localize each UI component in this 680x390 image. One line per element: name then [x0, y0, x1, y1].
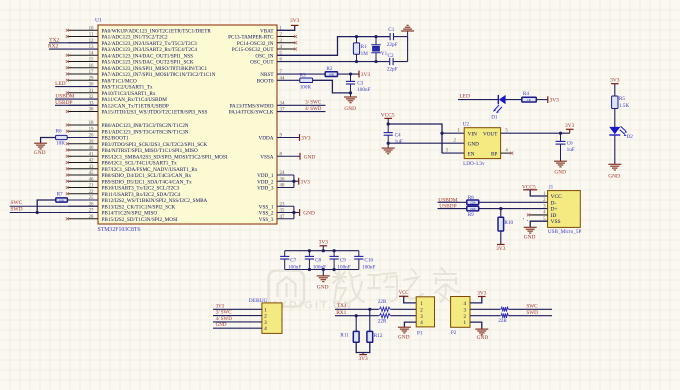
svg-text:PA11/CAN_Rx/T1C4/USBDM: PA11/CAN_Rx/T1C4/USBDM — [102, 97, 168, 103]
pin 17 PA7 stub — [68, 73, 98, 75]
resistor 22R SWC zigzag — [501, 307, 509, 313]
power port 3V3 VDDA — [299, 134, 301, 141]
net TX1 wire — [335, 308, 416, 310]
wire P1 pin4 to ground — [404, 322, 416, 327]
LED D1 — [499, 95, 506, 104]
pin 14 PA4 stub — [68, 54, 98, 56]
power port GND VSSA — [299, 153, 301, 160]
capacitor C8 — [308, 251, 310, 257]
resistor R3 — [300, 78, 313, 83]
svg-text:15: 15 — [89, 58, 94, 63]
junction VOUT/C6 — [559, 132, 562, 135]
svg-text:PB12/I2S2_WS/T1BKIN/SPI2_NSS/I: PB12/I2S2_WS/T1BKIN/SPI2_NSS/I2C2_SMBA — [102, 198, 208, 204]
svg-text:VCC: VCC — [399, 291, 409, 296]
svg-text:TX2: TX2 — [49, 37, 59, 43]
pin 39 PB3 stub — [68, 143, 98, 145]
svg-text:C10: C10 — [364, 257, 373, 263]
svg-text:U2: U2 — [463, 122, 470, 128]
wire R12 vertical — [369, 309, 371, 331]
svg-text:GND: GND — [398, 334, 410, 340]
svg-text:PB8/SDIO_D4/I2C1_SCL/T4C3/CAN_: PB8/SDIO_D4/I2C1_SCL/T4C3/CAN_Rx — [102, 173, 192, 179]
svg-text:SWC: SWC — [11, 200, 23, 206]
svg-text:1K: 1K — [527, 98, 532, 102]
wire OSC_OUT rail — [277, 61, 389, 63]
wire P2 pin4 to 3V3 — [470, 297, 482, 303]
svg-text:GND: GND — [216, 323, 227, 328]
svg-text:PC15-OSC32_OUT: PC15-OSC32_OUT — [232, 47, 275, 53]
svg-text:PA15/JTDI/I2S3_WS/JTDO/T2C1ETR: PA15/JTDI/I2S3_WS/JTDO/T2C1ETR/SPI3_NSS — [102, 110, 208, 116]
resistor R4 — [522, 97, 537, 102]
pin 10 PA0 stub — [68, 29, 98, 31]
junction VDD — [292, 180, 295, 183]
svg-text:PB10/USART3_Tx/I2C2_SCL/T2C3: PB10/USART3_Tx/I2C2_SCL/T2C3 — [102, 186, 180, 192]
IC U1 body — [98, 25, 277, 224]
power port VCC5 U2 — [384, 117, 392, 119]
svg-text:1uF: 1uF — [395, 139, 403, 145]
svg-text:1uF: 1uF — [567, 147, 575, 153]
svg-text:D-: D- — [551, 200, 557, 206]
svg-text:3V3: 3V3 — [496, 246, 506, 252]
svg-text:LED: LED — [55, 81, 66, 87]
wire J1 VSS to ground — [530, 221, 547, 227]
net USBDM wire — [55, 98, 98, 100]
svg-text:C2: C2 — [388, 53, 394, 59]
wire VCC5 input — [387, 118, 389, 124]
junction RX1/R11 — [355, 314, 358, 317]
svg-text:PA1/ADC123_IN1/T5C2/T2C2: PA1/ADC123_IN1/T5C2/T2C2 — [102, 35, 169, 41]
svg-text:VCC5: VCC5 — [381, 112, 395, 118]
resistor R10 — [498, 217, 504, 231]
net SWC wire left — [10, 205, 98, 207]
wire U2 GND pin — [388, 142, 464, 144]
svg-text:22pF: 22pF — [387, 42, 398, 48]
power port 3V3 NRST — [358, 71, 360, 78]
cap bank bottom rail — [285, 269, 359, 271]
svg-text:PB0/ADC123_IN8/T3C3/T8C2N/T1C2: PB0/ADC123_IN8/T3C3/T8C2N/T1C2N — [102, 123, 189, 129]
svg-text:VOUT: VOUT — [483, 131, 498, 137]
junction R7/SWD — [36, 211, 39, 214]
connector DEBUG body — [262, 303, 282, 334]
svg-text:PA8/T1C1/MCO: PA8/T1C1/MCO — [102, 78, 138, 84]
DEBUG wire 4/ SWD — [213, 321, 262, 323]
wire R5 to D2 — [614, 109, 616, 128]
svg-text:PB5/I2C1_SMBA/I2S3_SD/SPI3_MOS: PB5/I2C1_SMBA/I2S3_SD/SPI3_MOSI/T3C2/SPI… — [102, 154, 228, 160]
J1 ID stub no-connect — [530, 214, 548, 216]
svg-text:D1: D1 — [491, 114, 498, 120]
svg-text:PB9/SDIO_D5/I2C1_SDA/T4C4/CAN_: PB9/SDIO_D5/I2C1_SDA/T4C4/CAN_Tx — [102, 179, 193, 185]
svg-text:18: 18 — [89, 121, 94, 126]
pin 4 stub no-connect — [277, 48, 295, 50]
capacitor C7 — [284, 251, 286, 257]
svg-text:22R: 22R — [378, 319, 387, 325]
svg-text:PA6/ADC123_IN6/SPI1_MISO/T8T1B: PA6/ADC123_IN6/SPI1_MISO/T8T1BKIN/T3C1 — [102, 66, 208, 72]
wire BOOT0 — [277, 79, 300, 81]
resistor R5 — [612, 96, 618, 109]
pin 30 PA9 stub — [68, 86, 98, 88]
svg-text:R12: R12 — [374, 333, 383, 339]
regulator U2 body — [464, 128, 500, 159]
wire EN — [442, 152, 464, 154]
junction VCC5/C4 — [387, 122, 390, 125]
svg-text:3/ SWC: 3/ SWC — [216, 311, 233, 316]
svg-text:100nF: 100nF — [362, 264, 375, 270]
wire R2 to 3V3 — [338, 73, 360, 75]
svg-text:PA12/CAN_Tx/T1ETR/USBDP: PA12/CAN_Tx/T1ETR/USBDP — [102, 103, 169, 109]
wire 3V3 to R5 — [614, 84, 616, 96]
resistor R7 wire right — [67, 199, 98, 201]
svg-text:GND: GND — [304, 154, 316, 160]
svg-text:PA0/WKUP/ADC123_IN0/T2C1ETR/T5: PA0/WKUP/ADC123_IN0/T2C1ETR/T5C1/DIETR — [102, 28, 212, 34]
svg-text:BP: BP — [491, 151, 497, 157]
pin 13 PA3 stub — [68, 48, 98, 50]
capacitor C9 — [333, 251, 335, 257]
svg-text:VSS_3: VSS_3 — [259, 217, 274, 223]
svg-text:Y1: Y1 — [381, 51, 388, 57]
resistor R8 — [467, 200, 479, 205]
svg-text:D+: D+ — [551, 207, 558, 213]
watermark logo — [269, 271, 305, 307]
svg-text:VSS: VSS — [551, 219, 561, 225]
svg-text:PB6/I2C1_SCL/T4C1/USART1_Tx: PB6/I2C1_SCL/T4C1/USART1_Tx — [102, 161, 178, 167]
svg-text:C8: C8 — [315, 257, 321, 263]
wire OSC_IN riser — [277, 37, 390, 56]
resistor R1 — [356, 37, 358, 43]
wire VBAT to 3V3 — [277, 25, 295, 30]
junction TX1/R12 — [368, 308, 371, 311]
svg-text:VBAT: VBAT — [260, 28, 274, 34]
svg-text:45: 45 — [89, 171, 94, 176]
svg-text:PB1/ADC123_IN9/T3C4/T8C3N/T1C3: PB1/ADC123_IN9/T3C4/T8C3N/T1C3N — [102, 129, 189, 135]
svg-text:PA10/T1C3/USART1_Rx: PA10/T1C3/USART1_Rx — [102, 91, 156, 97]
pin 38 PA15 stub — [68, 111, 98, 113]
pin 22 PB11 stub — [68, 193, 98, 195]
junction VIN — [440, 132, 443, 135]
resistor R7 — [56, 198, 68, 202]
wire R10 to 3V3 — [500, 231, 502, 245]
svg-text:22R: 22R — [378, 299, 387, 305]
svg-text:R11: R11 — [340, 333, 349, 339]
svg-text:43: 43 — [89, 165, 94, 170]
svg-text:PB2/BOOT1: PB2/BOOT1 — [102, 136, 130, 142]
svg-text:C4: C4 — [395, 133, 401, 139]
power port 3V3 P2 — [478, 296, 486, 298]
capacitor C1 — [389, 33, 391, 40]
pin 3 stub no-connect — [277, 42, 295, 44]
svg-text:USB_Micro_5P: USB_Micro_5P — [548, 229, 582, 235]
svg-text:PB4/NJTRST/SPI3_MISO/T1C1/SPI1: PB4/NJTRST/SPI3_MISO/T1C1/SPI1_MISO — [102, 148, 199, 154]
pin 32 PA11 stub — [68, 98, 98, 100]
pin 26 PB13 stub — [68, 205, 98, 207]
pin 42 PB6 stub — [68, 162, 98, 164]
svg-text:R5: R5 — [619, 96, 625, 102]
svg-text:3V3: 3V3 — [358, 356, 368, 362]
svg-text:U1: U1 — [95, 18, 102, 24]
svg-text:R7: R7 — [57, 192, 63, 198]
svg-text:19: 19 — [89, 127, 94, 132]
pin 33 PA12 stub — [68, 104, 98, 106]
wire P2 SWC — [470, 308, 552, 310]
svg-text:17: 17 — [89, 70, 94, 75]
wire P2 pin1 to ground — [470, 322, 482, 329]
cap bank top rail — [285, 250, 359, 252]
svg-text:R4: R4 — [523, 91, 529, 97]
pin 20 PB2 stub — [68, 137, 98, 139]
svg-text:4/ SWD: 4/ SWD — [305, 107, 322, 112]
capacitor C10 — [358, 251, 360, 257]
power port 3V3 LED — [547, 96, 549, 103]
svg-text:100nF: 100nF — [288, 264, 301, 270]
net SWD right wire — [277, 111, 326, 113]
svg-text:RX2: RX2 — [48, 44, 58, 50]
svg-text:OSC_OUT: OSC_OUT — [250, 60, 274, 66]
svg-text:D2: D2 — [627, 134, 634, 140]
svg-text:28: 28 — [89, 215, 94, 220]
svg-text:NRST: NRST — [260, 72, 274, 78]
wire C2 to ground node — [393, 61, 407, 63]
cap bank junctions — [308, 249, 311, 252]
svg-text:PB7/I2C1_SDA/FSMC_NADV/USART1_: PB7/I2C1_SDA/FSMC_NADV/USART1_Rx — [102, 167, 198, 173]
pin 45 PB8 stub — [68, 174, 98, 176]
resistor 22R RX1 zigzag — [379, 313, 391, 319]
svg-text:BOOT0: BOOT0 — [257, 78, 274, 84]
svg-text:10K: 10K — [56, 141, 65, 147]
svg-text:1.5K: 1.5K — [619, 103, 629, 109]
svg-text:VIN: VIN — [468, 131, 477, 137]
svg-text:VSSA: VSSA — [260, 154, 274, 160]
svg-text:29: 29 — [89, 76, 94, 81]
junction VSS — [292, 211, 295, 214]
wire R8 to J1 — [479, 201, 548, 203]
svg-text:R1: R1 — [361, 44, 367, 50]
wire VOUT to 3V3 — [501, 132, 570, 134]
svg-text:VDD_1: VDD_1 — [257, 173, 274, 179]
svg-text:PB13/I2S2_CK/T1C1N/SPI2_SCK: PB13/I2S2_CK/T1C1N/SPI2_SCK — [102, 204, 176, 210]
power port GND VSS — [299, 209, 301, 216]
wire VSS group — [277, 205, 294, 207]
pin 19 PB1 stub — [68, 130, 98, 132]
svg-text:STM32F103C8T6: STM32F103C8T6 — [98, 227, 141, 233]
svg-text:14: 14 — [89, 51, 94, 56]
resistor 22R TX1 zigzag — [379, 307, 391, 313]
svg-text:3V3: 3V3 — [361, 72, 371, 78]
capacitor C4 — [387, 124, 389, 132]
net RX2 wire — [49, 48, 98, 50]
resistor R6 — [56, 135, 68, 139]
svg-text:VSS_2: VSS_2 — [259, 211, 274, 217]
earth ground C4 — [382, 147, 395, 149]
wire D1 to R4 — [506, 99, 522, 101]
capacitor C6 — [560, 133, 562, 141]
svg-text:3V3: 3V3 — [565, 123, 575, 129]
svg-text:C6: C6 — [567, 141, 573, 147]
svg-text:3V3: 3V3 — [610, 78, 620, 84]
svg-text:22pF: 22pF — [387, 67, 398, 73]
pin 28 PB15 stub — [68, 218, 98, 220]
resistor R2 — [325, 72, 337, 77]
wire P2 SWD — [470, 315, 552, 317]
svg-text:C3: C3 — [357, 81, 363, 87]
pin 46 PB9 stub — [68, 180, 98, 182]
svg-text:3V3: 3V3 — [216, 304, 225, 309]
svg-text:TX1: TX1 — [337, 303, 347, 309]
svg-text:C9: C9 — [340, 257, 346, 263]
wire R6 to ground — [41, 138, 56, 144]
svg-text:LDO-3.3v: LDO-3.3v — [463, 161, 485, 167]
svg-text:22R: 22R — [498, 318, 507, 324]
svg-text:R3: R3 — [300, 73, 306, 79]
resistor R11 — [353, 331, 359, 342]
earth ground C6 — [554, 160, 567, 162]
svg-text:21: 21 — [89, 184, 94, 189]
svg-text:GND: GND — [554, 169, 566, 175]
wire VDD to 3V3 — [294, 180, 299, 182]
svg-text:PC13-TAMPER-RTC: PC13-TAMPER-RTC — [228, 35, 274, 41]
svg-text:PB11/USART3_Rx/I2C2_SDA/T2C4: PB11/USART3_Rx/I2C2_SDA/T2C4 — [102, 192, 181, 198]
svg-text:R9: R9 — [468, 212, 474, 218]
pin 12 PA2 stub — [68, 42, 98, 44]
svg-text:GND: GND — [344, 106, 356, 112]
svg-text:C7: C7 — [290, 257, 296, 263]
earth ground cap bank — [317, 275, 330, 277]
svg-text:GND: GND — [608, 173, 620, 179]
power port 3V3 VBAT — [291, 24, 299, 26]
power port 3V3 VDD — [298, 178, 300, 185]
svg-text:22: 22 — [89, 190, 94, 195]
connector P2 body — [451, 297, 470, 328]
svg-text:USBDM: USBDM — [55, 94, 74, 100]
pin 18 PB0 stub — [68, 124, 98, 126]
svg-text:R8: R8 — [468, 195, 474, 201]
resistor 22R SWD zigzag — [501, 313, 509, 319]
wire R11 R12 join — [356, 342, 370, 352]
svg-text:100nF: 100nF — [337, 264, 350, 270]
svg-text:40: 40 — [89, 146, 94, 151]
svg-text:3V3: 3V3 — [290, 18, 300, 24]
pin 40 PB4 stub — [68, 149, 98, 151]
pin 21 PB10 stub — [68, 187, 98, 189]
svg-text:3V3: 3V3 — [550, 98, 560, 104]
wire R9 to J1 — [479, 208, 548, 210]
wire VDDA — [277, 137, 300, 139]
wire 3V3 stem — [322, 246, 324, 251]
ground below R6 — [34, 142, 47, 144]
svg-text:R6: R6 — [56, 129, 62, 135]
svg-text:PA3/ADC123_IN3/USART2_Rx/T5C4/: PA3/ADC123_IN3/USART2_Rx/T5C4/T2C4 — [102, 47, 198, 53]
svg-text:GND: GND — [477, 335, 489, 341]
wire D2 to ground — [614, 135, 616, 165]
svg-text:DEBUG: DEBUG — [249, 298, 268, 304]
net USBDP wire — [438, 208, 467, 210]
svg-text:100K: 100K — [300, 84, 312, 90]
wire VSSA — [277, 155, 300, 157]
wire LED to D1 — [458, 99, 498, 101]
svg-text:10K: 10K — [328, 72, 334, 76]
svg-text:C1: C1 — [388, 27, 394, 33]
wire VCC5 to J1 — [530, 190, 547, 196]
svg-text:31: 31 — [89, 89, 94, 94]
pin 43 PB7 stub — [68, 168, 98, 170]
svg-text:3V3: 3V3 — [301, 136, 311, 142]
pin 29 PA8 stub — [68, 79, 98, 81]
power port 3V3 pullups — [359, 354, 367, 356]
connector P1 body — [416, 297, 434, 327]
earth ground P2 — [475, 328, 488, 330]
wire BOOT0 to ground — [313, 80, 351, 93]
pin 2 stub no-connect — [277, 36, 295, 38]
resistor R9 — [467, 206, 479, 211]
svg-text:SWD: SWD — [526, 310, 538, 316]
connector J1 body — [548, 191, 581, 228]
svg-text:38: 38 — [89, 108, 94, 113]
svg-text:PA4/ADC123_IN4/DAC_OUT1/SPI1_N: PA4/ADC123_IN4/DAC_OUT1/SPI1_NSS — [102, 53, 194, 59]
svg-text:J1: J1 — [549, 184, 554, 190]
U2 BP stub — [501, 152, 511, 154]
svg-text:PA7/ADC123_IN7/SPI1_MOSI/T8C1N: PA7/ADC123_IN7/SPI1_MOSI/T8C1N/T3C2/T1C1… — [102, 72, 216, 78]
capacitor C2 — [389, 58, 391, 65]
capacitor C3 — [350, 74, 352, 81]
svg-text:42: 42 — [89, 159, 94, 164]
pin 16 PA6 stub — [68, 67, 98, 69]
svg-text:RX1: RX1 — [336, 310, 346, 316]
svg-text:VDD_3: VDD_3 — [257, 186, 274, 192]
wire VCC to P1 pin1 — [404, 296, 417, 303]
resistor R12 — [367, 331, 373, 342]
svg-text:PB15/I2S2_SD/T1C3N/SPI2_MOSI: PB15/I2S2_SD/T1C3N/SPI2_MOSI — [102, 217, 178, 223]
svg-text:EN: EN — [468, 151, 475, 157]
wire NRST — [277, 73, 325, 75]
wire VSS to GND — [294, 212, 300, 214]
DEBUG wire 3V3 — [213, 308, 262, 310]
svg-text:R2: R2 — [326, 66, 332, 72]
svg-text:GND: GND — [524, 234, 536, 240]
resistor R6 wire right — [67, 137, 98, 139]
svg-text:GND: GND — [468, 141, 479, 147]
pin 31 PA10 stub — [68, 92, 98, 94]
power port 3V3 R10 — [497, 244, 505, 246]
svg-text:10: 10 — [89, 26, 94, 31]
svg-text:11: 11 — [89, 33, 94, 38]
net LED wire — [55, 86, 98, 88]
svg-text:46: 46 — [89, 177, 94, 182]
net USBDP wire — [55, 104, 98, 106]
svg-text:PA13/JTMS/SWDIO: PA13/JTMS/SWDIO — [230, 103, 274, 109]
svg-text:P2: P2 — [451, 330, 457, 336]
wire ground vertical — [407, 37, 409, 62]
wire C1 to ground node — [394, 36, 408, 38]
earth ground J1 — [524, 226, 537, 228]
svg-text:SWC: SWC — [526, 304, 538, 310]
svg-text:PC14-OSC32_IN: PC14-OSC32_IN — [237, 41, 274, 47]
wire R10 top — [500, 209, 502, 218]
net TX2 wire — [49, 42, 98, 44]
wire R11 vertical — [355, 316, 357, 332]
net RX1 wire — [335, 315, 416, 317]
wire VDD group — [277, 174, 294, 176]
svg-text:10K: 10K — [59, 198, 65, 202]
earth ground D2 — [608, 163, 621, 165]
wire R7 left to SWD net — [37, 200, 56, 213]
net SWD wire left — [10, 212, 98, 214]
svg-text:PA5/ADC123_IN5/DAC_OUT2/SPI1_S: PA5/ADC123_IN5/DAC_OUT2/SPI1_SCK — [102, 60, 194, 66]
svg-text:100nF: 100nF — [357, 87, 370, 93]
power port 3V3 VOUT — [569, 129, 571, 133]
svg-text:USBDP: USBDP — [55, 100, 72, 106]
svg-text:P1: P1 — [417, 331, 423, 337]
svg-text:PA2/ADC123_IN2/USART2_Tx/T5C3/: PA2/ADC123_IN2/USART2_Tx/T5C3/T2C3 — [102, 41, 198, 47]
svg-text:PB14/T1C2N/SPI2_MISO: PB14/T1C2N/SPI2_MISO — [102, 211, 158, 217]
net SWC right wire — [277, 104, 326, 106]
svg-text:3/ SWC: 3/ SWC — [305, 101, 322, 106]
